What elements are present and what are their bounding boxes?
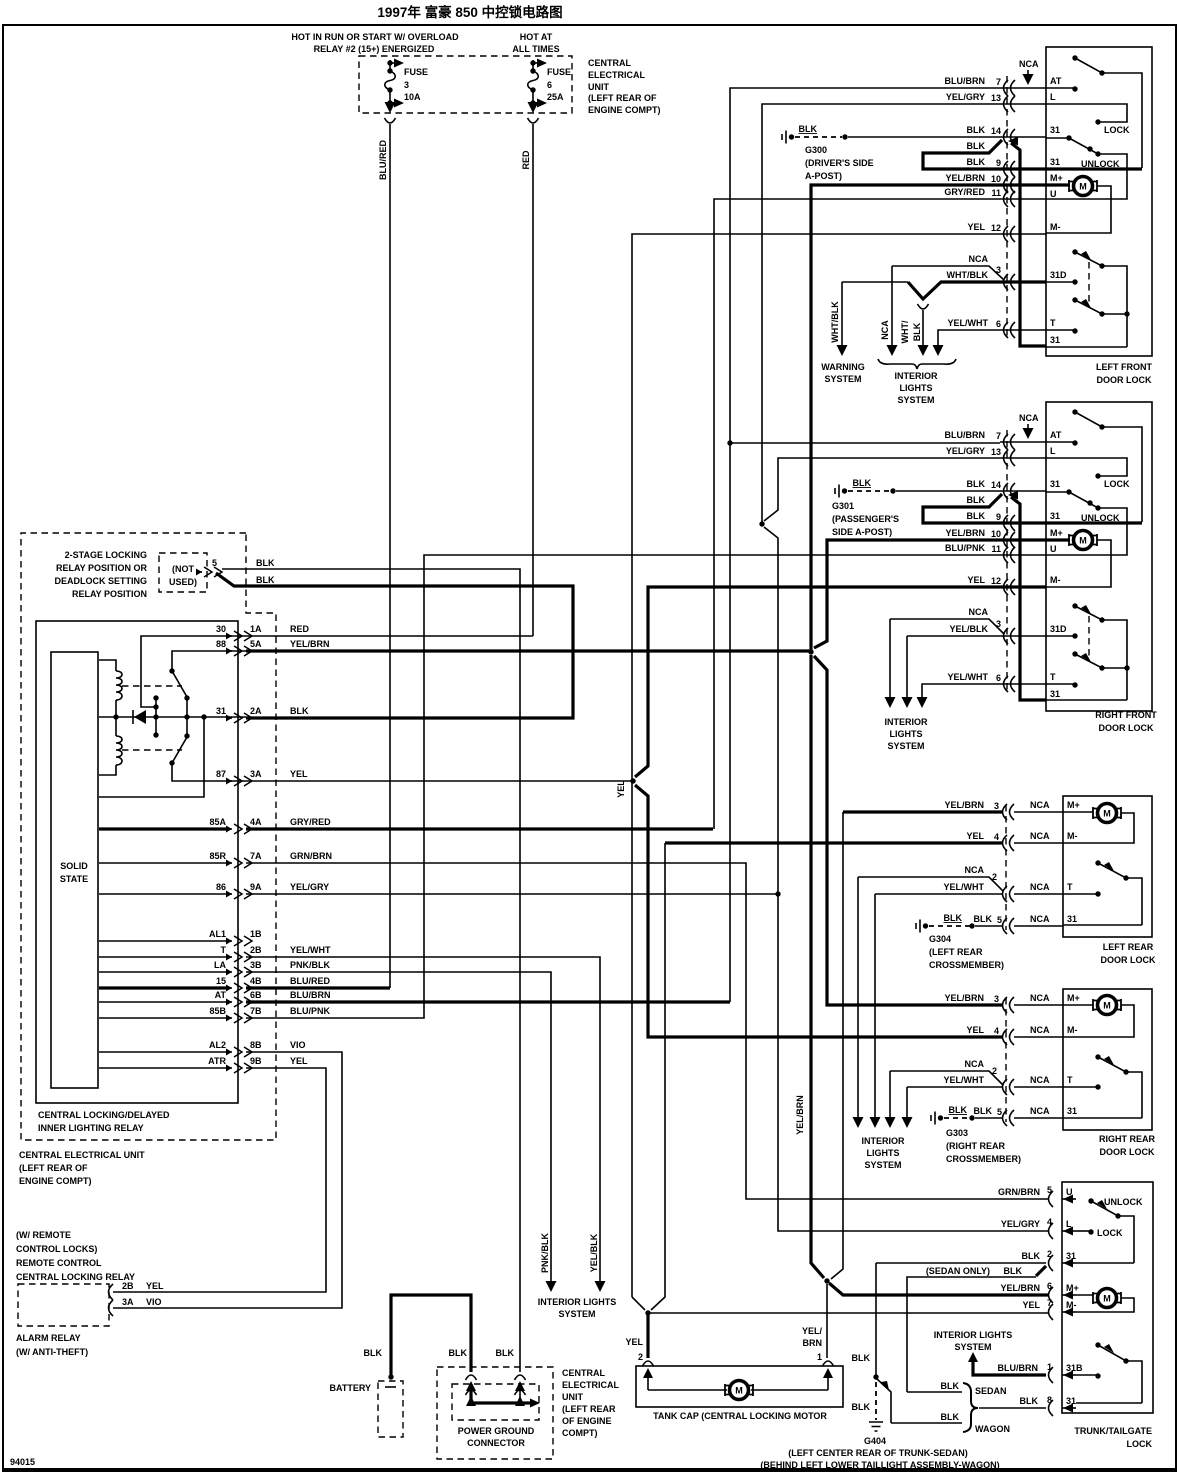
- relay box CENTRAL LOCKING/DELAYED INNER LIGHTING RELAY: [36, 621, 238, 1103]
- svg-text:U: U: [1050, 189, 1057, 199]
- node YEL/GRY junction dot: [775, 891, 780, 896]
- wire YEL trunk up to left front pin 12: [632, 234, 1046, 1297]
- LF second switch arm: [1072, 297, 1077, 302]
- RF lower switch 31D/T: [1072, 603, 1077, 608]
- wire BLU/RED 4B row (joins fuse3 drop): [246, 986, 390, 989]
- svg-text:UNLOCK: UNLOCK: [1104, 1197, 1143, 1207]
- right rear door lock box: [1063, 989, 1152, 1130]
- svg-text:G303: G303: [946, 1128, 968, 1138]
- svg-text:DEADLOCK SETTING: DEADLOCK SETTING: [54, 576, 147, 586]
- svg-text:ALL TIMES: ALL TIMES: [512, 44, 559, 54]
- wire YEL from alarm 2B to relay 9B: [113, 1068, 326, 1292]
- svg-text:RIGHT FRONT: RIGHT FRONT: [1095, 710, 1157, 720]
- wire BLK battery to power ground connector: [391, 1295, 471, 1375]
- pin 13 L: wire YEL/GRY: [1000, 457, 1046, 459]
- svg-text:HOT IN RUN OR START W/ OVERLOA: HOT IN RUN OR START W/ OVERLOAD: [291, 32, 459, 42]
- svg-text:RED: RED: [521, 150, 531, 170]
- svg-text:SEDAN: SEDAN: [975, 1386, 1007, 1396]
- internal bus vertical with dots: [155, 698, 157, 735]
- svg-text:87: 87: [216, 769, 226, 779]
- svg-text:11: 11: [991, 188, 1001, 198]
- svg-text:4: 4: [1047, 1217, 1052, 1227]
- svg-text:BLK: BLK: [290, 706, 309, 716]
- svg-text:2: 2: [992, 1066, 997, 1076]
- svg-text:M-: M-: [1066, 1300, 1077, 1310]
- relay pin 15/4B: [226, 983, 252, 993]
- svg-text:NCA: NCA: [1030, 882, 1050, 892]
- wire YEL/WHT down to interior lights arrow: [874, 894, 876, 1118]
- svg-text:25A: 25A: [547, 92, 564, 102]
- svg-text:SIDE A-POST): SIDE A-POST): [832, 527, 892, 537]
- wire BLU/RED vertical from fuse 3 to 4B row: [389, 124, 391, 988]
- LF AT contact: [1046, 87, 1075, 89]
- svg-text:31D: 31D: [1050, 270, 1067, 280]
- relay pin ATR/9B: [226, 1063, 252, 1073]
- svg-text:NCA: NCA: [969, 254, 989, 264]
- svg-text:YEL/GRY: YEL/GRY: [946, 92, 985, 102]
- svg-text:CENTRAL: CENTRAL: [588, 58, 631, 68]
- svg-text:86: 86: [216, 882, 226, 892]
- wire YEL/GRY 9A row to junction on trunk: [246, 893, 778, 895]
- wire YEL/BRN 5A row to trunk junction dot A: [246, 649, 811, 652]
- pin 7 M-: wire YEL: [1049, 1304, 1054, 1320]
- svg-text:3: 3: [994, 994, 999, 1004]
- svg-text:YEL/WHT: YEL/WHT: [948, 318, 989, 328]
- svg-text:BLU/BRN: BLU/BRN: [945, 430, 986, 440]
- svg-text:FUSE: FUSE: [404, 67, 428, 77]
- svg-text:T: T: [1067, 882, 1073, 892]
- wire 88/5A internal to switch pivot: [172, 651, 246, 671]
- RF U internal wire: [1046, 523, 1127, 555]
- svg-text:3B: 3B: [250, 960, 262, 970]
- svg-text:BLK: BLK: [1020, 1396, 1039, 1406]
- RF 31 pin9 internal wire: [1046, 521, 1142, 524]
- svg-text:VIO: VIO: [290, 1040, 306, 1050]
- svg-text:BLU/RED: BLU/RED: [290, 976, 330, 986]
- pin 2 NCA / YEL/WHT wires: [890, 1071, 1003, 1085]
- svg-text:U: U: [1050, 544, 1057, 554]
- pin 6 T: wire YEL/WHT to interior lights: [922, 684, 1046, 698]
- svg-text:BLK: BLK: [967, 511, 986, 521]
- svg-text:NCA: NCA: [1030, 831, 1050, 841]
- wire BLK dashed from G301: [848, 490, 890, 492]
- svg-text:YEL/GRY: YEL/GRY: [290, 882, 329, 892]
- svg-text:(LEFT REAR OF: (LEFT REAR OF: [588, 93, 657, 103]
- wire RED 1A row to fuse 6 drop: [246, 635, 533, 637]
- svg-text:1A: 1A: [250, 624, 262, 634]
- RF dashed switch linkage: [1088, 616, 1090, 658]
- svg-text:M-: M-: [1050, 222, 1061, 232]
- svg-text:M-: M-: [1067, 1025, 1078, 1035]
- pin 2 connector: [643, 1361, 654, 1366]
- svg-text:YEL/BRN: YEL/BRN: [945, 528, 985, 538]
- svg-text:NCA: NCA: [1030, 1075, 1050, 1085]
- svg-text:G301: G301: [832, 501, 854, 511]
- svg-text:31: 31: [216, 706, 226, 716]
- pin 2 31: wire BLK: [1049, 1255, 1054, 1271]
- svg-text:BLK: BLK: [949, 1105, 968, 1115]
- svg-text:YEL/WHT: YEL/WHT: [290, 945, 331, 955]
- svg-text:YEL/BRN: YEL/BRN: [290, 639, 330, 649]
- svg-text:G300: G300: [805, 145, 827, 155]
- svg-text:CENTRAL LOCKING/DELAYED: CENTRAL LOCKING/DELAYED: [38, 1110, 170, 1120]
- svg-text:YEL/BLK: YEL/BLK: [949, 624, 988, 634]
- svg-text:YEL: YEL: [966, 1025, 984, 1035]
- relay pin 87/3A: [226, 776, 252, 786]
- svg-text:2B: 2B: [250, 945, 262, 955]
- svg-text:INNER LIGHTING RELAY: INNER LIGHTING RELAY: [38, 1123, 144, 1133]
- svg-text:A-POST): A-POST): [805, 171, 842, 181]
- node YEL junction dot 1: [630, 778, 635, 783]
- pin 4 M-: wire YEL NCA: [1003, 835, 1015, 851]
- RF motor M: [1046, 538, 1070, 541]
- svg-text:CONNECTOR: CONNECTOR: [467, 1438, 525, 1448]
- brace under interior lights arrows: [878, 359, 956, 369]
- relay pin 86/9A: [226, 889, 252, 899]
- svg-text:ATR: ATR: [208, 1056, 226, 1066]
- trunk UNLOCK switch: [1088, 1198, 1093, 1203]
- svg-text:NCA: NCA: [969, 607, 989, 617]
- svg-text:M+: M+: [1050, 528, 1063, 538]
- connector on RED wire below fuse: [528, 118, 539, 123]
- wire BLK dashed from G304: [929, 925, 970, 927]
- svg-text:YEL/WHT: YEL/WHT: [948, 672, 989, 682]
- relay pin AL2/8B: [226, 1047, 252, 1057]
- connector arcs and arrows BLK wire left: [466, 1375, 477, 1380]
- svg-text:31: 31: [1067, 1106, 1077, 1116]
- svg-text:BLU/BRN: BLU/BRN: [290, 990, 331, 1000]
- wire YEL/BRN dot C to trunk lock M+: [829, 1283, 1049, 1295]
- svg-text:4: 4: [994, 832, 999, 842]
- RF 31D contact: [1046, 635, 1075, 637]
- svg-text:LIGHTS: LIGHTS: [900, 383, 933, 393]
- svg-text:2: 2: [638, 1352, 643, 1362]
- svg-text:UNIT: UNIT: [588, 82, 609, 92]
- svg-text:LIGHTS: LIGHTS: [867, 1148, 900, 1158]
- LF motor M: [1046, 183, 1070, 186]
- pin 3 M+: wire YEL/BRN NCA: [1003, 804, 1015, 820]
- tank motor M internal wire: [648, 1389, 828, 1391]
- wire BLK WAGON row: [891, 1422, 962, 1424]
- svg-text:BLK: BLK: [967, 125, 986, 135]
- svg-text:1: 1: [817, 1352, 822, 1362]
- svg-text:ELECTRICAL: ELECTRICAL: [588, 70, 645, 80]
- svg-text:CONTROL LOCKS): CONTROL LOCKS): [16, 1244, 97, 1254]
- svg-text:10A: 10A: [404, 92, 421, 102]
- svg-text:14: 14: [991, 126, 1001, 136]
- pin 13 L: wire YEL/GRY: [1000, 103, 1046, 105]
- RF T contact: [1046, 683, 1075, 685]
- svg-text:9: 9: [996, 512, 1001, 522]
- coil linkage dashed 2: [122, 749, 182, 751]
- svg-text:RIGHT REAR: RIGHT REAR: [1099, 1134, 1156, 1144]
- wire GRN/BRN 7A row to trunk lock U pin 5: [246, 863, 1049, 1199]
- svg-text:LOCK: LOCK: [1104, 479, 1130, 489]
- pin 5 of not-used relay position: [196, 567, 222, 577]
- svg-text:SYSTEM: SYSTEM: [897, 395, 934, 405]
- svg-text:LOCK: LOCK: [1104, 125, 1130, 135]
- svg-text:YEL: YEL: [616, 780, 626, 798]
- svg-text:CENTRAL: CENTRAL: [562, 1368, 605, 1378]
- svg-text:85B: 85B: [209, 1006, 226, 1016]
- svg-text:7A: 7A: [250, 851, 262, 861]
- pin 10 M+ connector: [1004, 532, 1016, 548]
- svg-text:15: 15: [216, 976, 226, 986]
- svg-text:31: 31: [1067, 914, 1077, 924]
- svg-text:5: 5: [997, 915, 1002, 925]
- svg-text:7: 7: [996, 431, 1001, 441]
- alarm pin 3A VIO: [109, 1300, 114, 1316]
- svg-text:UNIT: UNIT: [562, 1392, 583, 1402]
- solid state box: [51, 652, 98, 1088]
- pin 11 U: wire GRY/RED: [1004, 191, 1016, 207]
- svg-text:RED: RED: [290, 624, 310, 634]
- wire BLK thick vertical to bottom 31: [1011, 143, 1046, 346]
- fuse 3 symbol: [385, 59, 405, 114]
- svg-text:LEFT FRONT: LEFT FRONT: [1096, 362, 1152, 372]
- pin 2 NCA / YEL/WHT wires: [858, 877, 1003, 891]
- svg-text:STATE: STATE: [60, 874, 88, 884]
- svg-text:BLU/BRN: BLU/BRN: [945, 76, 986, 86]
- svg-text:(LEFT REAR: (LEFT REAR: [929, 947, 983, 957]
- svg-text:31: 31: [1050, 125, 1060, 135]
- LF 31 pin14 switch to UNLOCK: [1046, 137, 1069, 139]
- wire BLK to junction dot with arrow: [471, 1384, 531, 1403]
- svg-text:BATTERY: BATTERY: [330, 1383, 372, 1393]
- wire BLK (SEDAN ONLY) row: [907, 1277, 1036, 1392]
- svg-text:U: U: [1066, 1187, 1073, 1197]
- svg-text:(LEFT REAR OF: (LEFT REAR OF: [19, 1163, 88, 1173]
- svg-text:(BEHIND LEFT LOWER TAILLIGHT A: (BEHIND LEFT LOWER TAILLIGHT ASSEMBLY-WA…: [760, 1460, 999, 1470]
- svg-text:3A: 3A: [250, 769, 262, 779]
- svg-text:BLK: BLK: [364, 1348, 383, 1358]
- svg-text:SYSTEM: SYSTEM: [824, 374, 861, 384]
- wire YEL/BRN stem to tank cap motor pin 1: [826, 1284, 828, 1358]
- svg-text:BLK: BLK: [974, 914, 993, 924]
- svg-text:6B: 6B: [250, 990, 262, 1000]
- battery minus terminal: [385, 1386, 396, 1388]
- svg-text:M+: M+: [1050, 173, 1063, 183]
- svg-text:YEL: YEL: [290, 1056, 308, 1066]
- trunk LOCK contact: [1076, 1230, 1091, 1232]
- connector dashed line: [1006, 76, 1008, 336]
- svg-text:(W/ ANTI-THEFT): (W/ ANTI-THEFT): [16, 1347, 88, 1357]
- svg-text:3A: 3A: [122, 1297, 134, 1307]
- pin 3 NCA/YEL-BLK wires: [890, 619, 1004, 634]
- relay pin 85B/7B: [226, 1013, 252, 1023]
- LF T contact: [1046, 329, 1075, 331]
- svg-text:TRUNK/TAILGATE: TRUNK/TAILGATE: [1074, 1426, 1152, 1436]
- RF switch AT top: [1072, 409, 1077, 414]
- LF 31D contact: [1046, 281, 1075, 283]
- tank motor M: [725, 1381, 753, 1400]
- svg-text:6: 6: [996, 319, 1001, 329]
- RR switch: [1095, 1054, 1100, 1059]
- svg-text:BLU/PNK: BLU/PNK: [945, 543, 985, 553]
- wire PNK/BLK 3B row down to interior lights arrow: [246, 972, 551, 1288]
- svg-text:6: 6: [1047, 1281, 1052, 1291]
- wire BLU/BRN 31B to interior lights system arrow: [973, 1360, 1046, 1375]
- svg-text:GRY/RED: GRY/RED: [944, 187, 985, 197]
- wire YEL/BLK to interior lights arrow: [906, 636, 908, 698]
- wire BLK dashed to ground G404: [875, 1382, 877, 1420]
- svg-text:BLK: BLK: [853, 478, 872, 488]
- svg-text:WAGON: WAGON: [975, 1424, 1010, 1434]
- svg-text:NCA: NCA: [1019, 59, 1039, 69]
- svg-text:NCA: NCA: [965, 865, 985, 875]
- svg-text:YEL/WHT: YEL/WHT: [944, 882, 985, 892]
- wire YEL 3A row to dot 1: [246, 780, 633, 782]
- brace SEDAN/WAGON: [963, 1383, 978, 1432]
- svg-text:30: 30: [216, 624, 226, 634]
- svg-text:NCA: NCA: [1019, 413, 1039, 423]
- svg-text:CROSSMEMBER): CROSSMEMBER): [929, 960, 1004, 970]
- svg-text:LOCK: LOCK: [1127, 1439, 1153, 1449]
- svg-text:FUSE: FUSE: [547, 67, 571, 77]
- svg-text:BLK: BLK: [852, 1402, 871, 1412]
- wire BLK dashed from G303: [944, 1117, 970, 1119]
- LR motor M: [1093, 804, 1121, 823]
- svg-text:HOT AT: HOT AT: [520, 32, 553, 42]
- svg-text:G304: G304: [929, 934, 951, 944]
- wire YEL/WHT 2B row down to interior lights arrow: [246, 957, 600, 1288]
- wire YEL/BRN branch to right front M+ via jog: [814, 540, 1046, 648]
- svg-text:7: 7: [996, 77, 1001, 87]
- svg-text:5: 5: [1047, 1185, 1052, 1195]
- svg-text:YEL: YEL: [967, 222, 985, 232]
- svg-text:INTERIOR LIGHTS: INTERIOR LIGHTS: [934, 1330, 1013, 1340]
- svg-text:BLK: BLK: [967, 157, 986, 167]
- svg-text:YEL: YEL: [967, 575, 985, 585]
- LF L to LOCK contact: [1046, 104, 1127, 122]
- LR switch: [1095, 860, 1100, 865]
- svg-text:94015: 94015: [10, 1457, 35, 1467]
- svg-text:10: 10: [991, 529, 1001, 539]
- arrow PNK/BLK interior lights: [546, 1281, 557, 1292]
- svg-text:YEL/BRN: YEL/BRN: [795, 1095, 805, 1135]
- wire BLK sedan-only diagonal into pin 2: [1036, 1266, 1046, 1276]
- pin 3 M+: wire YEL/BRN NCA: [1003, 997, 1015, 1013]
- connector dashed line: [1006, 430, 1008, 690]
- svg-text:12: 12: [991, 223, 1001, 233]
- LF dashed switch linkage: [1088, 262, 1090, 304]
- svg-text:YEL: YEL: [290, 769, 308, 779]
- svg-text:LIGHTS: LIGHTS: [890, 729, 923, 739]
- node YEL junction dot 2: [645, 1310, 650, 1315]
- svg-text:2A: 2A: [250, 706, 262, 716]
- svg-text:INTERIOR: INTERIOR: [861, 1136, 905, 1146]
- svg-text:5: 5: [212, 558, 217, 568]
- svg-text:YEL/BRN: YEL/BRN: [945, 173, 985, 183]
- svg-text:3: 3: [996, 265, 1001, 275]
- svg-text:M+: M+: [1066, 1283, 1079, 1293]
- relay pin LA/3B: [226, 967, 252, 977]
- svg-text:YEL/BRN: YEL/BRN: [944, 800, 984, 810]
- relay pin 31/2A: [226, 713, 252, 723]
- svg-text:1997年 富豪 850 中控锁电路图: 1997年 富豪 850 中控锁电路图: [377, 4, 562, 20]
- svg-text:BLK: BLK: [944, 913, 963, 923]
- wire BLK solid from G300 to pin 14: [848, 136, 1046, 138]
- svg-text:YEL/WHT: YEL/WHT: [944, 1075, 985, 1085]
- junction dots on 31 row: [113, 714, 118, 719]
- svg-text:BLK: BLK: [967, 479, 986, 489]
- trunk 31 internal wire: [1076, 1262, 1134, 1264]
- svg-text:13: 13: [991, 93, 1001, 103]
- LF 31 pin9 internal wire: [1046, 167, 1142, 170]
- svg-text:7: 7: [1047, 1298, 1052, 1308]
- wire YEL left rear M- branch to dot 2: [665, 841, 1002, 844]
- connector and stem below WHT/BLK V-junction: [918, 304, 929, 309]
- coil linkage dashed 1: [122, 685, 182, 687]
- wire BLK solid to pin 5: [975, 925, 1002, 927]
- central electrical unit dashed box (bottom): [437, 1367, 553, 1459]
- svg-text:1: 1: [1047, 1362, 1052, 1372]
- pin 12 M-: wire YEL: [1004, 226, 1016, 242]
- svg-text:NCA: NCA: [965, 1059, 985, 1069]
- RR T contact: [1063, 1086, 1098, 1088]
- RF bottom 31 wire: [1046, 699, 1127, 701]
- wire YEL thick down to right rear M-: [635, 785, 1002, 1037]
- svg-text:BLK: BLK: [496, 1348, 515, 1358]
- wire YEL/BRN trunk down to dot C: [811, 655, 824, 1278]
- svg-text:NCA: NCA: [1030, 914, 1050, 924]
- svg-text:LOCK: LOCK: [1097, 1228, 1123, 1238]
- svg-text:85A: 85A: [209, 817, 226, 827]
- svg-text:SYSTEM: SYSTEM: [558, 1309, 595, 1319]
- pin 7 AT: wire BLU/BRN: [1004, 80, 1016, 96]
- svg-text:8B: 8B: [250, 1040, 262, 1050]
- relay switch arm 1: [169, 668, 174, 673]
- svg-text:PNK/BLK: PNK/BLK: [540, 1233, 550, 1273]
- svg-text:YEL/BLK: YEL/BLK: [589, 1233, 599, 1272]
- wire BLK thin from pin 5 to power ground connector: [222, 569, 520, 1372]
- svg-text:YEL: YEL: [966, 831, 984, 841]
- svg-text:WARNING: WARNING: [821, 362, 865, 372]
- svg-text:6: 6: [996, 673, 1001, 683]
- wire NCA to interior lights arrow: [891, 266, 893, 346]
- RF 31 pin14 switch to UNLOCK: [1046, 491, 1069, 493]
- wire YEL/BRN jog down to right rear M+: [814, 656, 1002, 1005]
- svg-text:M+: M+: [1067, 993, 1080, 1003]
- wire 87/3A internal: [99, 717, 246, 797]
- wire YEL/BRN left rear M+ branch: [843, 810, 1002, 813]
- svg-text:BLK: BLK: [256, 575, 275, 585]
- svg-text:AT: AT: [215, 990, 227, 1000]
- svg-text:BLK: BLK: [1004, 1266, 1023, 1276]
- central electrical unit dashed box (fuses): [359, 56, 572, 113]
- svg-text:AT: AT: [1050, 76, 1062, 86]
- alarm pin 2B YEL: [109, 1284, 114, 1300]
- svg-text:T: T: [1050, 318, 1056, 328]
- relay pin 30/1A: [226, 631, 252, 641]
- svg-text:GRN/BRN: GRN/BRN: [290, 851, 332, 861]
- pin 1 31B: wire BLU/BRN: [1049, 1367, 1054, 1383]
- svg-text:NCA: NCA: [1030, 800, 1050, 810]
- pin 3 NCA/WHT-BLK wires: [892, 266, 1004, 280]
- svg-text:PNK/BLK: PNK/BLK: [290, 960, 330, 970]
- RR 31 wire: [1063, 1117, 1142, 1119]
- node C junction dot YEL/BRN tank cap: [824, 1278, 829, 1283]
- svg-text:INTERIOR: INTERIOR: [894, 371, 938, 381]
- wire YEL thick to right front pin 12 via jog: [635, 587, 1046, 777]
- svg-text:RELAY #2 (15+) ENERGIZED: RELAY #2 (15+) ENERGIZED: [314, 44, 435, 54]
- left rear door lock box: [1063, 796, 1152, 937]
- relay coil 1: [99, 660, 116, 717]
- svg-text:5A: 5A: [250, 639, 262, 649]
- svg-text:BLK: BLK: [967, 141, 986, 151]
- svg-text:WHT/: WHT/: [900, 320, 910, 343]
- svg-text:4A: 4A: [250, 817, 262, 827]
